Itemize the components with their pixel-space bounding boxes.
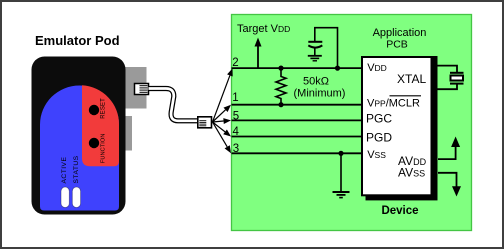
fan wire to pin 5 <box>213 121 224 122</box>
arrowhead to wire 3 <box>225 145 231 153</box>
crystal Y1 plate top <box>450 72 464 74</box>
pod button (function) <box>89 138 99 148</box>
wire 1 (VPP) <box>232 104 363 106</box>
svg-text:Target VDD: Target VDD <box>237 23 290 35</box>
svg-text:(Minimum): (Minimum) <box>294 88 346 100</box>
resistor R1 50k <box>276 68 286 105</box>
arrowhead to wire 4 <box>223 130 231 137</box>
crystal Y1 wiring bottom <box>436 85 457 90</box>
node: capacitor junction <box>335 66 340 71</box>
svg-text:PGD: PGD <box>366 131 392 145</box>
svg-text:1: 1 <box>232 92 238 104</box>
Target VDD arrow <box>257 45 259 68</box>
wire 3 (VSS) <box>232 152 363 154</box>
cable <box>149 89 199 121</box>
node: resistor bottom junction <box>278 102 283 107</box>
svg-text:Emulator Pod: Emulator Pod <box>35 33 120 48</box>
svg-text:AVSS: AVSS <box>398 165 425 179</box>
device U1 body <box>362 57 432 195</box>
wire 5 (PGC) <box>232 119 363 121</box>
capacitor C1 branch wire <box>315 28 338 68</box>
arrowhead to wire 2 <box>227 68 233 76</box>
fan wire to pin 2 <box>213 75 230 122</box>
ground (VSS) <box>333 192 350 198</box>
fan wire to pin 4 <box>213 122 226 132</box>
capacitor C1 <box>308 41 322 43</box>
emulator pod body <box>32 57 126 215</box>
crystal Y1 body <box>451 76 464 81</box>
fan wire to pin 1 <box>213 110 226 122</box>
node: VSS ground junction <box>338 151 343 156</box>
svg-text:50kΩ: 50kΩ <box>303 76 329 88</box>
arrowhead to wire 5 <box>223 118 231 124</box>
svg-text:2: 2 <box>232 57 238 69</box>
svg-text:3: 3 <box>233 143 239 155</box>
AVDD arrow <box>438 147 456 160</box>
svg-text:VDD: VDD <box>367 62 387 74</box>
wire 2 (VDD) <box>232 67 363 69</box>
svg-text:FUNCTION: FUNCTION <box>101 133 107 163</box>
svg-text:4: 4 <box>233 126 240 138</box>
device U1 shadow <box>366 56 438 200</box>
AVSS arrow <box>438 173 457 187</box>
svg-text:STATUS: STATUS <box>73 155 80 183</box>
svg-text:PGC: PGC <box>366 112 392 126</box>
LED window (active) <box>61 187 69 208</box>
pod button (reset) <box>89 105 99 115</box>
plug P1 pins <box>140 86 148 93</box>
svg-text:ACTIVE: ACTIVE <box>61 157 68 184</box>
svg-text:RESET: RESET <box>101 98 107 119</box>
svg-text:5: 5 <box>233 111 239 123</box>
green application PCB area <box>232 15 472 231</box>
plug P2 pins <box>199 121 206 126</box>
svg-text:VPP/MCLR: VPP/MCLR <box>367 97 420 109</box>
plug P2 to target <box>198 117 212 128</box>
arrowhead to wire 1 <box>224 105 232 112</box>
svg-text:VSS: VSS <box>367 149 386 161</box>
crystal Y1 wiring top <box>436 66 457 72</box>
svg-text:Application: Application <box>373 27 427 39</box>
svg-text:XTAL: XTAL <box>397 72 426 86</box>
node: resistor top junction <box>278 66 283 71</box>
wire 4 (PGD) <box>232 136 363 138</box>
pod red panel <box>82 85 119 166</box>
svg-text:PCB: PCB <box>386 39 408 51</box>
crystal Y1 plate bottom <box>450 83 464 85</box>
LED window (status) <box>72 187 80 208</box>
plug P1 on pod <box>135 84 149 95</box>
svg-text:Device: Device <box>381 205 418 217</box>
ground (capacitor) <box>308 56 322 61</box>
fan wire to pin 3 <box>213 122 228 147</box>
overline MCLR <box>390 95 422 97</box>
connector tab (gray, upper) <box>125 67 147 109</box>
ground (VSS) wire <box>340 153 342 191</box>
pod blue face <box>40 86 119 211</box>
connector tab (gray, lower) <box>125 116 132 151</box>
